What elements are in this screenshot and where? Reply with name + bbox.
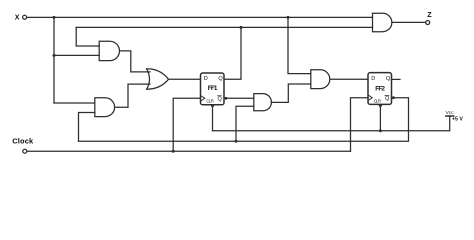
input terminal X bbox=[15, 14, 27, 21]
wire FF1 Q to Q1 bus bbox=[224, 27, 241, 79]
wire Q2bar riser to A4 lower input bbox=[236, 106, 254, 141]
wire clock to FF1 bbox=[173, 98, 200, 151]
svg-text:+5 V: +5 V bbox=[452, 116, 463, 122]
power Vcc symbol bbox=[446, 110, 464, 122]
wire Q1 feedback bus bbox=[76, 26, 372, 28]
wire clock bus bbox=[27, 150, 351, 152]
svg-text:FF2: FF2 bbox=[375, 85, 385, 92]
flip-flop FF2 bbox=[368, 73, 392, 109]
svg-text:D: D bbox=[371, 76, 375, 82]
svg-text:Q: Q bbox=[218, 76, 223, 82]
AND gate A4 bbox=[254, 94, 272, 111]
wire X to A2 upper input bbox=[54, 102, 95, 104]
svg-text:Clock: Clock bbox=[12, 137, 34, 146]
svg-text:CLR: CLR bbox=[206, 98, 213, 103]
wire Q1 to A1 upper input bbox=[76, 27, 99, 46]
svg-text:Vcc: Vcc bbox=[446, 110, 455, 116]
svg-text:Q: Q bbox=[385, 96, 390, 102]
svg-text:X: X bbox=[15, 14, 20, 21]
output terminal Z bbox=[426, 10, 433, 25]
node FF2 Qbar pin bbox=[392, 96, 395, 99]
node Q2bar-A4 junction bbox=[235, 140, 238, 143]
svg-text:CLR: CLR bbox=[374, 98, 381, 103]
wire X to A1 lower input bbox=[54, 54, 99, 56]
AND gate A1 bbox=[99, 41, 119, 60]
svg-text:Z: Z bbox=[427, 10, 432, 19]
node FF1 Qbar pin bbox=[225, 97, 228, 100]
wire FF1 Qbar to A4 bbox=[224, 97, 254, 99]
svg-text:Q: Q bbox=[386, 76, 391, 82]
flip-flop FF1 bbox=[201, 73, 225, 109]
AND gate A3 bbox=[311, 70, 330, 89]
wire A3 output to FF2 D bbox=[330, 78, 368, 80]
AND gate A2 bbox=[95, 98, 115, 117]
wire O1 output to FF1 D bbox=[169, 78, 201, 80]
input terminal Clock bbox=[12, 137, 34, 154]
node X junction 1 bbox=[53, 16, 56, 19]
wire X bus top bbox=[27, 16, 373, 18]
OR gate O1 bbox=[147, 69, 169, 89]
node FF2 CLR junction bbox=[379, 129, 382, 132]
node Q1 junction bbox=[240, 26, 243, 29]
wire Vcc line bbox=[213, 116, 450, 131]
wire Q2bar to A2 lower input bbox=[79, 113, 95, 142]
node clock-FF1 junction bbox=[172, 150, 175, 153]
node X junction 2 bbox=[287, 16, 290, 19]
wire X drop to A3 bbox=[288, 17, 311, 73]
svg-text:FF1: FF1 bbox=[208, 85, 218, 92]
wire FF2 Q stub bbox=[392, 78, 401, 80]
wire A1 output to O1 bbox=[120, 51, 151, 72]
wire X drop left bbox=[53, 17, 55, 103]
svg-text:D: D bbox=[204, 76, 208, 82]
wire Z gate output bbox=[392, 21, 426, 23]
wire FF2 Qbar feedback bbox=[79, 98, 409, 142]
AND gate Z output bbox=[373, 13, 392, 32]
wire FF1 CLR to Vcc line bbox=[212, 109, 214, 131]
wire A4 output to A3 lower input bbox=[271, 84, 310, 102]
wire FF2 CLR to Vcc line bbox=[379, 108, 381, 131]
node X-A1 junction bbox=[53, 54, 56, 57]
wire clock to FF2 bbox=[351, 98, 369, 152]
svg-text:Q: Q bbox=[218, 96, 223, 102]
wire A2 output to O1 lower input bbox=[115, 84, 150, 107]
